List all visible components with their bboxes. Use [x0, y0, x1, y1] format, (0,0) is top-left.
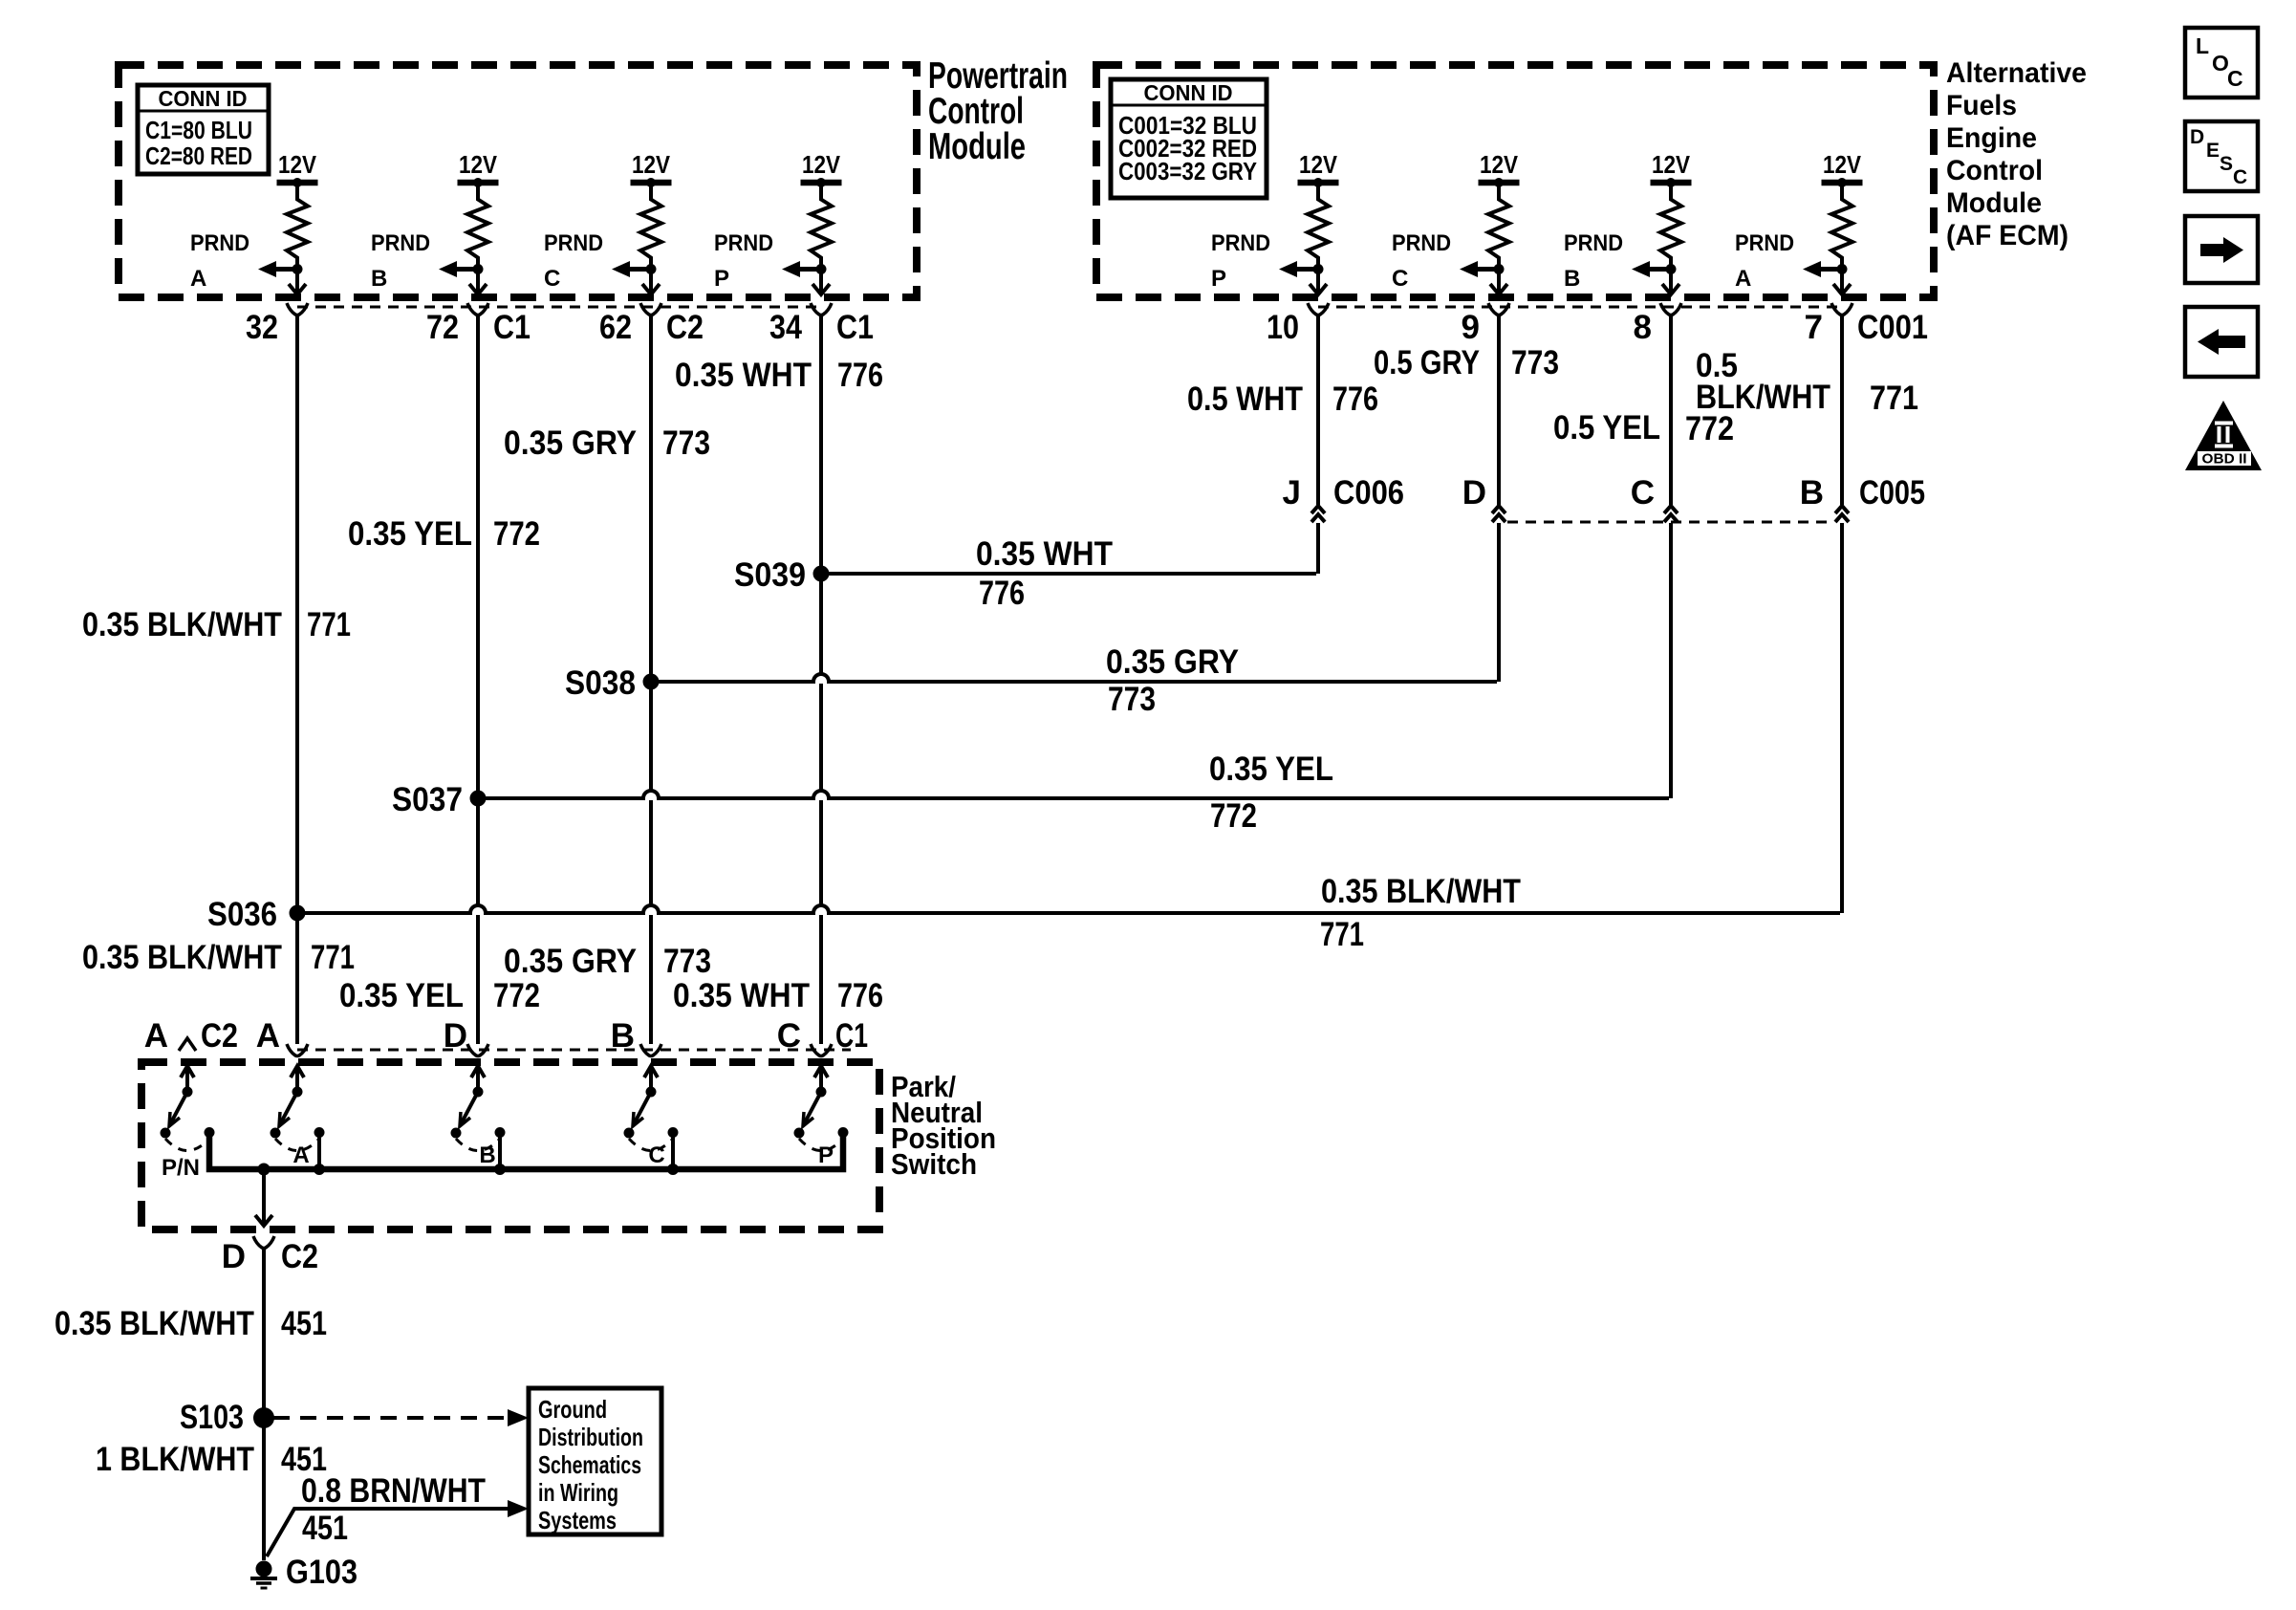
svg-text:0.35 BLK/WHT: 0.35 BLK/WHT	[1321, 873, 1521, 910]
wire: connector J down to S039 branch corner	[1316, 523, 1320, 574]
wire: PNP common bus	[209, 1133, 843, 1175]
svg-text:0.35 WHT: 0.35 WHT	[675, 357, 812, 394]
CONN ID table (PCM): C1=80 BLU / C2=80 RED	[138, 85, 269, 174]
svg-text:776: 776	[979, 575, 1025, 612]
PRND A signal arrow (points left)	[258, 261, 303, 277]
value label: 0.35 WHT 776 (pin 34 wire)	[675, 357, 883, 394]
value label: 0.35 GRY 773 (pin 62 wire)	[504, 424, 710, 462]
wire: PCM pin 72 to PNP pin D (0.35 YEL 772), via S037	[476, 315, 480, 1044]
svg-text:A: A	[190, 266, 206, 292]
svg-text:PRND: PRND	[714, 230, 773, 256]
svg-text:PRND: PRND	[1392, 230, 1451, 256]
12V supply node (R-A2)	[1822, 150, 1863, 187]
resistor R-C (pull-up to 12V)	[640, 185, 661, 293]
svg-text:0.35 BLK/WHT: 0.35 BLK/WHT	[54, 1305, 254, 1342]
svg-text:8: 8	[1634, 309, 1652, 346]
splice S103	[180, 1399, 274, 1436]
down arrowhead into connector (R-C)	[642, 284, 660, 294]
connector terminal D	[1462, 474, 1505, 522]
PRND C label	[1392, 230, 1451, 292]
svg-text:C1: C1	[835, 1017, 868, 1055]
PRND A label	[1735, 230, 1794, 292]
dashed reference wire from S103 to Ground Distribution box	[273, 1409, 529, 1426]
icon: OBD II triangle	[2185, 401, 2262, 470]
12V supply node (R-C)	[631, 150, 672, 187]
PRND A signal arrow (points left)	[1803, 261, 1848, 277]
svg-text:Distribution: Distribution	[538, 1423, 643, 1451]
svg-text:C001: C001	[1857, 309, 1928, 346]
value label: 0.35 YEL 772 (lower, pin D wire)	[339, 977, 540, 1014]
wire: connector D down to S038 branch corner	[1497, 523, 1501, 682]
svg-text:12V: 12V	[632, 150, 671, 179]
svg-text:BLK/WHT: BLK/WHT	[1696, 379, 1830, 416]
icon: left arrow box	[2185, 307, 2258, 377]
svg-text:C003=32 GRY: C003=32 GRY	[1118, 157, 1257, 185]
12V supply node (R-A)	[277, 150, 318, 187]
module box: Alternative Fuels Engine Control Module (AF ECM) (dashed)	[1096, 65, 1934, 297]
svg-text:7: 7	[1805, 309, 1823, 346]
reference box: Ground Distribution Schematics in Wiring Systems	[529, 1388, 661, 1534]
resistor R-P (pull-up to 12V)	[811, 185, 832, 293]
svg-text:J: J	[1283, 474, 1301, 511]
svg-text:C: C	[1631, 474, 1655, 511]
svg-text:0.35 YEL: 0.35 YEL	[348, 515, 472, 553]
PRND B label	[371, 230, 430, 292]
svg-text:A: A	[292, 1142, 309, 1168]
down arrowhead into connector (R-A)	[289, 284, 306, 294]
resistor R-C2 (pull-up to 12V)	[1488, 185, 1509, 293]
PNP terminal B	[611, 1017, 661, 1056]
svg-text:1 BLK/WHT: 1 BLK/WHT	[96, 1441, 254, 1478]
svg-text:C: C	[544, 266, 560, 292]
svg-text:P: P	[714, 266, 729, 292]
svg-text:12V: 12V	[1299, 150, 1338, 179]
wire: PCM pin 32 to PNP pin A (0.35 BLK/WHT 771), via S036	[295, 315, 299, 1044]
svg-text:P: P	[818, 1142, 834, 1168]
down arrowhead into connector (R-C2)	[1490, 284, 1507, 294]
12V supply node (R-C2)	[1479, 150, 1520, 187]
value label: 0.5 GRY 773 (pin 9 wire)	[1374, 344, 1559, 381]
svg-text:S: S	[2220, 153, 2233, 175]
wire: AF ECM pin 10 down to connector J C006	[1316, 315, 1320, 505]
PNP terminal C + C1	[777, 1017, 868, 1056]
svg-text:0.35 WHT: 0.35 WHT	[673, 977, 810, 1014]
pin 62 connector terminal	[599, 303, 704, 346]
svg-text:S037: S037	[392, 781, 463, 818]
svg-text:A: A	[256, 1017, 280, 1055]
connector C006 terminal J	[1283, 474, 1404, 522]
value label: 0.8 BRN/WHT / 451	[301, 1472, 486, 1547]
svg-text:Systems: Systems	[538, 1506, 617, 1534]
svg-text:10: 10	[1267, 309, 1299, 346]
svg-text:9: 9	[1462, 309, 1480, 346]
resistor R-B2 (pull-up to 12V)	[1660, 185, 1681, 293]
svg-text:Schematics: Schematics	[538, 1450, 641, 1479]
svg-text:E: E	[2206, 140, 2220, 162]
PNP terminal A	[256, 1017, 308, 1056]
svg-text:C2=80 RED: C2=80 RED	[145, 141, 252, 170]
value label: 0.35 WHT / 776 (S039 branch)	[976, 535, 1113, 612]
PRND B signal arrow (points left)	[439, 261, 484, 277]
svg-text:0.35 YEL: 0.35 YEL	[339, 977, 464, 1014]
wire: AF ECM pin 8 down to connector C	[1669, 315, 1673, 505]
svg-text:12V: 12V	[1480, 150, 1519, 179]
svg-text:771: 771	[307, 606, 351, 643]
svg-text:Control: Control	[1946, 155, 2043, 186]
junction: bus output tee	[258, 1164, 271, 1176]
svg-text:C: C	[648, 1142, 664, 1168]
svg-text:PRND: PRND	[190, 230, 249, 256]
svg-text:(AF ECM): (AF ECM)	[1946, 220, 2069, 251]
PRND B signal arrow (points left)	[1632, 261, 1677, 277]
svg-text:D: D	[222, 1238, 246, 1275]
pin 72 connector terminal	[426, 303, 531, 346]
wire: bus output down to PNP pin D (C2)	[255, 1169, 272, 1226]
splice S038 and branch wire 0.35 GRY 773 to connector D	[565, 664, 1497, 702]
svg-text:773: 773	[1108, 681, 1156, 718]
svg-text:773: 773	[663, 943, 711, 980]
label: Alternative Fuels Engine Control Module (AF ECM)	[1946, 57, 2087, 251]
connector terminal C	[1631, 474, 1678, 522]
svg-text:0.35 GRY: 0.35 GRY	[504, 424, 637, 462]
down arrowhead into connector (R-P2)	[1310, 284, 1327, 294]
svg-text:B: B	[1800, 474, 1824, 511]
svg-text:772: 772	[493, 515, 540, 553]
svg-text:P: P	[1211, 266, 1226, 292]
svg-text:A: A	[144, 1017, 168, 1055]
svg-text:12V: 12V	[802, 150, 841, 179]
down arrowhead into connector (R-A2)	[1833, 284, 1851, 294]
PRND P signal arrow (points left)	[1279, 261, 1324, 277]
PRND B label	[1564, 230, 1623, 292]
CONN ID table (AF ECM): C001=32 BLU / C002=32 RED / C003=32 GRY	[1111, 79, 1267, 198]
svg-text:451: 451	[302, 1510, 348, 1547]
svg-text:776: 776	[837, 977, 883, 1014]
wire: PCM pin 34 to PNP pin C (0.35 WHT 776), via S039	[819, 315, 823, 1044]
pin 32 connector terminal	[246, 303, 308, 346]
svg-text:C1: C1	[836, 309, 874, 346]
value label: 0.35 GRY 773 (lower, pin B wire)	[504, 943, 711, 980]
value label: 0.35 BLK/WHT 771 (lower, pin A wire)	[82, 939, 355, 976]
inline connector dashed line (C005 connector face D-C-B)	[1507, 521, 1833, 524]
down arrowhead into connector (R-B)	[469, 284, 487, 294]
svg-text:Ground: Ground	[538, 1395, 607, 1424]
PRND C label	[544, 230, 603, 292]
PRND C signal arrow (points left)	[1460, 261, 1505, 277]
svg-text:0.35 GRY: 0.35 GRY	[504, 943, 637, 980]
svg-text:S103: S103	[180, 1399, 244, 1436]
inline connector dashed line (PCM C1/C2 connector face)	[297, 306, 821, 309]
PRND A label	[190, 230, 249, 292]
splice S037 and branch wire 0.35 YEL 772 to connector C	[392, 781, 1669, 818]
svg-text:C: C	[2227, 66, 2243, 91]
wire: PCM pin 62 to PNP pin B (0.35 GRY 773), via S038	[649, 315, 653, 1044]
svg-text:34: 34	[769, 309, 802, 346]
12V supply node (R-B2)	[1651, 150, 1692, 187]
svg-text:0.5 YEL: 0.5 YEL	[1553, 409, 1660, 446]
connector C2 terminal D (PNP output)	[222, 1236, 318, 1275]
svg-text:C1=80 BLU: C1=80 BLU	[145, 116, 252, 144]
PRND P label	[1211, 230, 1270, 292]
PNP terminal D	[444, 1017, 488, 1056]
svg-text:B: B	[479, 1142, 495, 1168]
svg-text:C1: C1	[493, 309, 531, 346]
label: Powertrain Control Module	[928, 55, 1068, 167]
svg-text:C006: C006	[1333, 474, 1404, 511]
svg-text:771: 771	[311, 939, 355, 976]
svg-text:Alternative: Alternative	[1946, 57, 2087, 89]
svg-text:0.35 WHT: 0.35 WHT	[976, 535, 1113, 573]
svg-text:OBD II: OBD II	[2202, 451, 2247, 468]
svg-text:Module: Module	[1946, 187, 2042, 219]
svg-text:PRND: PRND	[1211, 230, 1270, 256]
value label: 0.35 YEL 772 (pin 72 wire)	[348, 515, 540, 553]
ground symbol G103	[250, 1554, 357, 1591]
splice S039 and branch wire 0.35 WHT 776 to connector J	[734, 556, 1316, 594]
value label: 0.35 BLK/WHT / 771 (S036 branch)	[1320, 873, 1521, 953]
wire: AF ECM pin 7 down to connector B C005	[1840, 315, 1844, 505]
svg-text:D: D	[2190, 126, 2204, 148]
svg-text:A: A	[1735, 266, 1751, 292]
svg-text:771: 771	[1320, 916, 1364, 953]
svg-text:0.35 GRY: 0.35 GRY	[1106, 643, 1239, 681]
svg-text:PRND: PRND	[1735, 230, 1794, 256]
switch contact C (PNP internal)	[624, 1066, 679, 1169]
svg-text:776: 776	[837, 357, 883, 394]
svg-text:Switch: Switch	[891, 1147, 977, 1181]
svg-text:32: 32	[246, 309, 278, 346]
pin 9 connector terminal	[1462, 303, 1509, 346]
icon: right arrow box	[2185, 216, 2258, 283]
PRND P label	[714, 230, 773, 292]
pin 34 connector terminal	[769, 303, 874, 346]
value label: 0.35 YEL / 772 (S037 branch)	[1209, 751, 1333, 835]
svg-text:773: 773	[662, 424, 710, 462]
svg-text:B: B	[1564, 266, 1580, 292]
svg-text:772: 772	[1210, 797, 1257, 835]
inline connector dashed line (PNP connector face)	[297, 1049, 851, 1052]
icon: DESC box	[2185, 121, 2258, 191]
svg-text:S038: S038	[565, 664, 636, 702]
svg-text:0.5 WHT: 0.5 WHT	[1187, 381, 1303, 418]
svg-text:Fuels: Fuels	[1946, 90, 2017, 121]
resistor R-A (pull-up to 12V)	[287, 185, 308, 293]
svg-text:12V: 12V	[1652, 150, 1691, 179]
value label: 0.35 BLK/WHT 771 (pin 32 wire)	[82, 606, 351, 643]
svg-text:772: 772	[493, 977, 540, 1014]
PRND P signal arrow (points left)	[782, 261, 827, 277]
module box: Park/Neutral Position Switch (dashed)	[141, 1062, 879, 1229]
pin 8 connector terminal	[1634, 303, 1681, 346]
switch contact P (PNP internal)	[794, 1066, 849, 1169]
svg-text:D: D	[1462, 474, 1486, 511]
svg-text:C2: C2	[201, 1017, 238, 1055]
wire: 0.8 BRN/WHT 451 branch to Ground Distribution box	[267, 1500, 529, 1556]
connector C2 stub terminal A (P/N sense)	[144, 1017, 238, 1055]
svg-text:C2: C2	[666, 309, 704, 346]
svg-text:PRND: PRND	[544, 230, 603, 256]
svg-text:C2: C2	[281, 1238, 318, 1275]
down arrowhead into connector (R-P)	[812, 284, 830, 294]
svg-text:G103: G103	[286, 1554, 357, 1591]
value label: 0.5 YEL 772 (pin 8 wire)	[1553, 409, 1734, 447]
svg-text:773: 773	[1511, 344, 1559, 381]
12V supply node (R-P)	[801, 150, 842, 187]
resistor R-P2 (pull-up to 12V)	[1308, 185, 1329, 293]
inline connector dashed line (AF ECM C001 connector face)	[1318, 306, 1842, 309]
module box: Powertrain Control Module (dashed)	[119, 65, 917, 297]
svg-text:451: 451	[281, 1305, 327, 1342]
svg-text:in Wiring: in Wiring	[538, 1478, 618, 1507]
12V supply node (R-B)	[458, 150, 499, 187]
12V supply node (R-P2)	[1298, 150, 1339, 187]
pin 10 connector terminal	[1267, 303, 1329, 346]
value label: 1 BLK/WHT 451	[96, 1441, 327, 1478]
svg-text:62: 62	[599, 309, 632, 346]
svg-text:0.5 GRY: 0.5 GRY	[1374, 344, 1480, 381]
splice S036 and branch wire 0.35 BLK/WHT 771 to connector B	[207, 896, 1840, 933]
svg-text:12V: 12V	[459, 150, 498, 179]
wire: PNP output to S103 to G103 (BLK/WHT 451)	[262, 1249, 266, 1560]
svg-text:12V: 12V	[1823, 150, 1862, 179]
wire: AF ECM pin 9 down to connector D	[1497, 315, 1501, 505]
svg-text:L: L	[2196, 33, 2209, 58]
value label: 0.35 GRY / 773 (S038 branch)	[1106, 643, 1239, 718]
down arrowhead into connector (R-B2)	[1662, 284, 1679, 294]
svg-text:C005: C005	[1859, 474, 1925, 511]
svg-text:776: 776	[1332, 381, 1378, 418]
svg-text:0.35 BLK/WHT: 0.35 BLK/WHT	[82, 939, 282, 976]
switch contact A (PNP internal)	[271, 1066, 325, 1169]
svg-text:Engine: Engine	[1946, 122, 2037, 154]
switch contact B (PNP internal)	[451, 1066, 506, 1169]
svg-text:P/N: P/N	[162, 1155, 200, 1181]
switch contact P/N (PNP internal)	[161, 1066, 215, 1181]
svg-text:C: C	[2233, 166, 2247, 188]
svg-text:0.35 YEL: 0.35 YEL	[1209, 751, 1333, 788]
wire: connector C down to S037 branch corner	[1669, 523, 1673, 798]
svg-text:CONN ID: CONN ID	[159, 86, 248, 111]
svg-text:S039: S039	[734, 556, 806, 594]
resistor R-B (pull-up to 12V)	[467, 185, 488, 293]
pin 7 connector terminal	[1805, 303, 1928, 346]
svg-text:0.8 BRN/WHT: 0.8 BRN/WHT	[301, 1472, 486, 1510]
PRND C signal arrow (points left)	[612, 261, 657, 277]
svg-text:CONN ID: CONN ID	[1144, 80, 1233, 105]
value label: 0.35 WHT 776 (lower, pin C wire)	[673, 977, 883, 1014]
svg-text:771: 771	[1870, 380, 1918, 417]
value label: 0.35 BLK/WHT 451	[54, 1305, 327, 1342]
label: Park/Neutral Position Switch	[891, 1070, 996, 1181]
value label: 0.5 WHT 776 (pin 10 wire)	[1187, 381, 1378, 418]
svg-text:0.35 BLK/WHT: 0.35 BLK/WHT	[82, 606, 282, 643]
svg-text:S036: S036	[207, 896, 277, 933]
value label: 0.5 BLK/WHT 771 (pin 7 wire)	[1696, 347, 1918, 417]
svg-text:C: C	[1392, 266, 1408, 292]
svg-text:72: 72	[426, 309, 459, 346]
svg-text:B: B	[371, 266, 387, 292]
svg-text:12V: 12V	[278, 150, 317, 179]
icon: LOC box	[2185, 28, 2258, 98]
connector C005 terminal B	[1800, 474, 1925, 522]
svg-text:PRND: PRND	[1564, 230, 1623, 256]
svg-text:Module: Module	[928, 126, 1026, 167]
resistor R-A2 (pull-up to 12V)	[1831, 185, 1852, 293]
wire: connector B down to S036 branch corner	[1840, 523, 1844, 913]
svg-text:PRND: PRND	[371, 230, 430, 256]
